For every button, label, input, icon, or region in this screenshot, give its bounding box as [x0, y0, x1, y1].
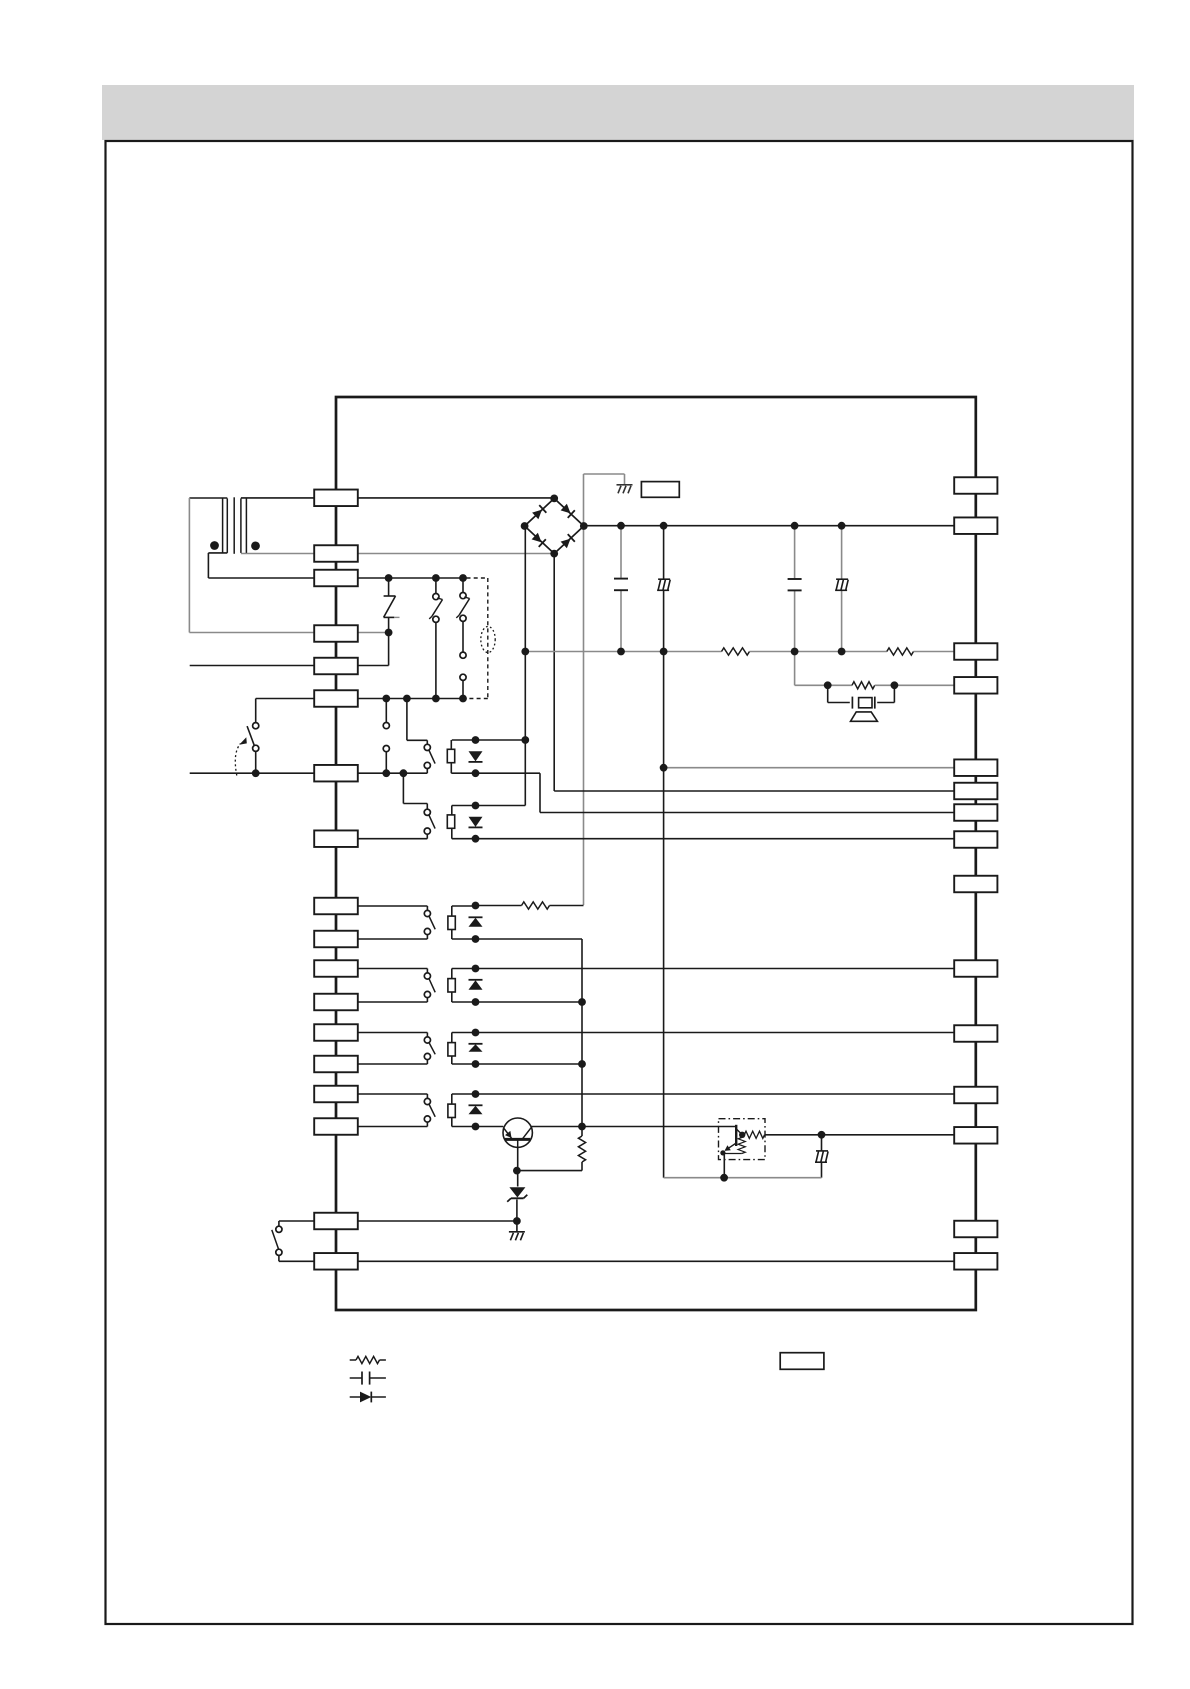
wire - row D bottom rail to opto base [476, 1126, 504, 1128]
transformer T1 phase dot right [251, 542, 260, 551]
wire - row B top lead from connector [358, 968, 428, 970]
bridge node right [580, 522, 588, 530]
connector pin L11 [314, 960, 358, 977]
wire - primary winding top to bridge AC+ via CN1 [241, 497, 554, 499]
wire - CN-E lead to zener/ground junction [358, 1220, 517, 1222]
resistor R5 (pull resistor) [578, 1136, 585, 1162]
wire - buzzer left leg [827, 685, 829, 702]
connector pin R5 [954, 759, 997, 776]
wire - fuse node down to CN5 wire [388, 633, 390, 666]
connector pin L2 [314, 545, 358, 562]
wire - S4 bottom to CN7 rail [426, 768, 428, 773]
wire - primary winding bottom to bridge AC- via CN2 [241, 553, 554, 555]
junction dots - buzzer rail [824, 681, 832, 689]
wire - to CN-R7 [540, 812, 954, 814]
wire - left vertical from winding top down to CN4 wire [188, 498, 190, 633]
protection unit D6 (resistor+zener) [451, 1094, 453, 1127]
legend label box (empty) [780, 1353, 824, 1370]
wire - row A top to R4 and gray vertical [476, 905, 522, 907]
wire - S5 bottom to CN8 row [426, 834, 428, 839]
connector pin L10 [314, 931, 358, 948]
capacitor C5 (electrolytic) [815, 1151, 828, 1162]
wire - row B top rail to CN-R10 [476, 968, 955, 970]
junction dots - CN3 rail [385, 574, 393, 582]
junction dot - fuse/CN4 node [385, 629, 393, 637]
wire - zener to ground junction [516, 1200, 518, 1232]
wire - CN-E to S6 top [279, 1220, 314, 1222]
wire - row C top rail to CN-R11 [476, 1032, 955, 1034]
junction dots - D1/D2 rails [472, 736, 480, 744]
connector pin R4 [954, 677, 997, 694]
junction dots - V+ rail [617, 522, 625, 530]
wire - D2 top rail [452, 805, 526, 807]
wire - row A bottom to x582 vertical [476, 938, 583, 940]
zener diode ZD1 [509, 1187, 525, 1197]
transistor Q1 [503, 1118, 532, 1147]
wire - row A top lead from connector [358, 905, 428, 907]
wire - long vertical net x663 [663, 526, 665, 580]
resistor R1 [722, 648, 750, 655]
wire - C5 bottom lead [821, 1163, 823, 1178]
connector pin R14 [954, 1221, 997, 1238]
switch row-B [424, 973, 430, 979]
connector pin R13 [954, 1127, 997, 1144]
wire - row A diode pair rails [452, 905, 476, 907]
wire - smoothing cap C1 leads [620, 526, 622, 578]
protection unit D3 (resistor+zener) [451, 906, 453, 939]
legend resistor symbol [350, 1359, 356, 1361]
power switch pole2 contacts [383, 723, 389, 729]
resistor R2 [887, 648, 914, 655]
connector pin L12 [314, 994, 358, 1011]
wire - CN5 lead [190, 665, 358, 667]
transformer T1 core [233, 497, 235, 554]
wire - regulated rail to CN-R3 (with R1,R2 series) [525, 651, 721, 653]
connector pin L15 [314, 1086, 358, 1103]
photocoupler internal resistor [738, 1138, 745, 1154]
capacitor C3 [788, 578, 802, 580]
chassis ground G2 [509, 1232, 525, 1241]
bridge diode bottom-left [531, 532, 546, 547]
wire - CN6 rail (switch commons) [358, 698, 463, 700]
wire - buzzer rail to CN-R4 (with R3) [795, 684, 852, 686]
wire - row C top lead from connector [358, 1032, 428, 1034]
connector pin L9 [314, 898, 358, 915]
page border frame [106, 141, 1133, 1624]
capacitor C4 (electrolytic) [835, 579, 848, 590]
wire - D1 top rail [452, 739, 526, 741]
wire - CN4 lead from left vertical to fuse node [189, 632, 388, 634]
connector pin R1 [954, 477, 997, 494]
junction dot - zener/ground node [513, 1217, 521, 1225]
fuse F1 [388, 578, 390, 596]
bridge diode top-left [532, 505, 547, 520]
switch S5 [424, 809, 430, 815]
connector pin R10 [954, 960, 997, 977]
wire - row A bottom lead from connector [358, 938, 428, 940]
junction dots - regulated rail [521, 648, 529, 656]
wire - bridge minus vertical (left vertex down) [524, 526, 526, 805]
legend capacitor symbol [350, 1377, 362, 1379]
wire - emitter return rail [664, 1177, 822, 1179]
connector pin R15 [954, 1253, 997, 1270]
wire - x582 collector net vertical [581, 939, 583, 1136]
wire - CN7 rail [190, 772, 428, 774]
connector pin L5 [314, 658, 358, 675]
connector pin R7 [954, 804, 997, 821]
wire - Q1 base down to zener [517, 1139, 519, 1186]
wire - V+ rail bridge to CN-R2 [584, 525, 954, 527]
wire - row C bottom lead from connector [358, 1063, 428, 1065]
wire - dashed gang link top [467, 577, 488, 579]
connector pin L7 [314, 765, 358, 782]
connector pin L6 [314, 690, 358, 707]
connector pin L16 [314, 1118, 358, 1135]
power switch S1 [253, 723, 259, 729]
buzzer BZ1 cone [851, 712, 878, 721]
wire - row C bottom to x582 [476, 1063, 583, 1065]
wire - row B bottom to x582 [476, 1001, 583, 1003]
wire - row D bottom lead from connector [358, 1126, 428, 1128]
connector pin R2 [954, 517, 997, 534]
switch row-D [424, 1098, 430, 1104]
switch row-A [424, 910, 430, 916]
connector pin R12 [954, 1087, 997, 1104]
wire - C5 top lead [821, 1135, 823, 1151]
switch row-C [424, 1037, 430, 1043]
connector pin L1 [314, 490, 358, 507]
wire - to CN-R6 [554, 790, 954, 792]
wire - B1 ground branch vertical [583, 474, 585, 905]
wire - buzzer feed drop [794, 652, 796, 686]
wire - power switch pole2 upper stub [385, 699, 387, 723]
main unit outline box [336, 397, 976, 1310]
page header gray bar [102, 85, 1134, 140]
capacitor C2 (electrolytic) [657, 579, 670, 590]
bridge diode top-right [560, 503, 575, 518]
wire - link CN7 rail down to S5 [402, 773, 404, 803]
protection unit D5 (resistor+zener) [451, 1033, 453, 1065]
connector pin L8 [314, 830, 358, 847]
wire - row D top rail to CN-R12 [476, 1093, 955, 1095]
resistor R6 [744, 1131, 764, 1138]
transformer T1 primary winding [240, 498, 242, 553]
resistor R3 [852, 682, 875, 689]
wire - C3 leads [794, 526, 796, 579]
bridge node bottom [550, 550, 558, 558]
connector pin L14 [314, 1056, 358, 1073]
wire - net x663 to CN-R5 [664, 767, 955, 769]
connector pin L17 [314, 1213, 358, 1230]
junction dot - x663 CN-R5 tap [660, 764, 668, 772]
wire - row B bottom lead from connector [358, 1001, 428, 1003]
connector pin L4 [314, 625, 358, 642]
chassis ground G1 [617, 485, 633, 494]
wire - buzzer right leg [893, 685, 895, 702]
bridge rectifier B1 diamond [525, 498, 584, 553]
surge unit D2 (resistor+zener) [451, 806, 453, 839]
wire - D1 bottom rail to down-jog [451, 772, 540, 774]
connector pin L3 [314, 570, 358, 587]
photocoupler PC1 dash-dot box [719, 1119, 766, 1160]
switch S3 (two-gap) [462, 578, 464, 593]
wire - opto emitter down [723, 1152, 725, 1178]
connector pin L18 [314, 1253, 358, 1270]
connector pin R3 [954, 643, 997, 660]
wire - dashed gang link vertical [487, 578, 489, 699]
switch S10 (bottom-left) [276, 1226, 282, 1232]
transformer T1 secondary winding [222, 498, 224, 553]
connector pin L13 [314, 1024, 358, 1041]
interlock dotted loop [481, 627, 495, 653]
capacitor C1 [614, 578, 628, 580]
wire - opto collector line with R6 to CN-R13 [742, 1134, 744, 1136]
wire - secondary winding bottom jog to CN3 [208, 552, 227, 554]
connector pin R9 [954, 876, 997, 893]
bridge diode bottom-right [560, 534, 575, 549]
wire - bridge AC bottom vertical down [553, 554, 555, 791]
connector pin R11 [954, 1025, 997, 1042]
wire - D2 bottom rail row to CN-R8 and CN8 [452, 838, 954, 840]
junction dots - rows [472, 902, 480, 910]
buzzer BZ1 crystal plates [851, 697, 853, 709]
junction dots - opto output [739, 1132, 745, 1138]
wire - row C diode pair rails [452, 1032, 476, 1034]
power switch actuation dotted arrow [235, 744, 240, 776]
wire - CN3 rail to switches S2/S3 [358, 577, 463, 579]
wire - power switch pole2 lower stub [385, 752, 387, 774]
wire - R5 bottom to emitter junction [517, 1170, 582, 1172]
bridge node left [521, 522, 529, 530]
bridge node top [550, 495, 558, 503]
label box (empty) [641, 482, 679, 498]
wire - row B diode pair rails [452, 968, 476, 970]
wire - CN-F long rail to CN-R15 [358, 1260, 954, 1262]
junction dots - CN6 rail [382, 695, 390, 703]
switch S2 [435, 578, 437, 594]
photocoupler PC1 phototransistor [735, 1125, 737, 1146]
switch S4 [424, 744, 430, 750]
protection unit D4 (resistor+zener) [451, 969, 453, 1003]
wire - row D diode pair rails [452, 1093, 476, 1095]
wire - AC line from secondary winding top to left vertical [189, 497, 227, 499]
connector pin R8 [954, 831, 997, 848]
wire - row D top lead from connector [358, 1093, 428, 1095]
connector pin R6 [954, 783, 997, 800]
surge unit D1 (resistor+zener) [450, 740, 452, 773]
wire - S6 bottom to CN-F [278, 1255, 280, 1261]
wire - C4 leads [841, 526, 843, 580]
junction dot - emitter node [513, 1167, 521, 1175]
junction dot - emitter return [720, 1174, 728, 1182]
junction dots - CN7 rail [252, 769, 260, 777]
wire - power switch S1 top to CN6 [255, 699, 257, 723]
transformer T1 phase dot left [210, 541, 219, 550]
resistor R4 [522, 902, 550, 909]
wire - dashed gang link bottom [467, 698, 488, 700]
wire - link rail-CN6 to S4 top [406, 699, 408, 741]
wire - power switch S1 bottom to CN7 rail [255, 751, 257, 773]
legend diode symbol [350, 1396, 360, 1398]
wire - B1 ground branch horizontal [584, 473, 625, 475]
